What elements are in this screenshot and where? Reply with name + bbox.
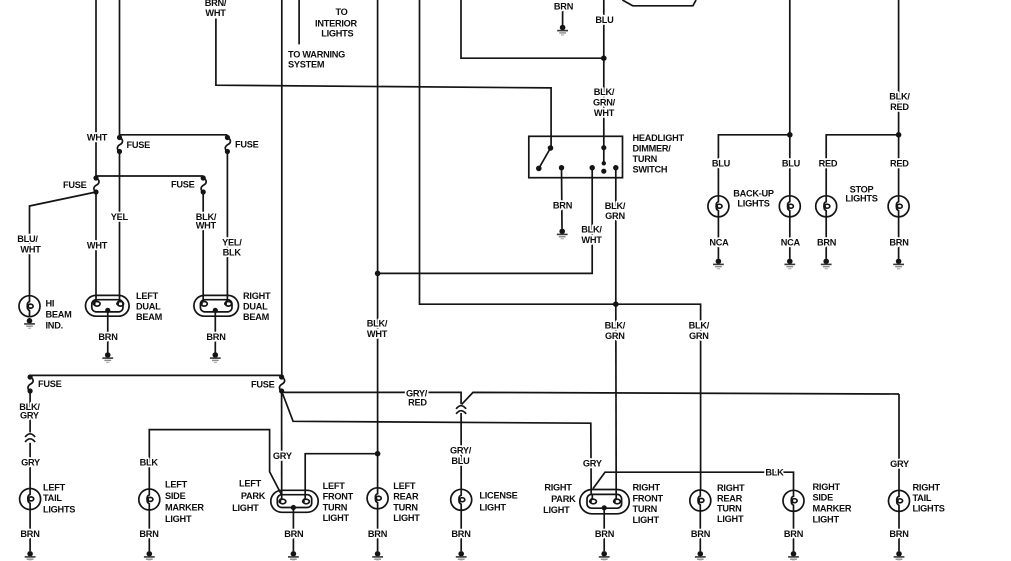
svg-text:BRN: BRN (368, 529, 388, 539)
left park light housing (271, 490, 318, 512)
svg-text:LIGHTS: LIGHTS (845, 193, 877, 203)
lamp back-up right (779, 196, 800, 217)
wire BLK/GRN from switch down to right park light (615, 168, 617, 305)
wire fuse bus 2 (96, 175, 203, 177)
connector tag at top (622, 0, 696, 6)
svg-text:BRN: BRN (20, 529, 40, 539)
lamp back-up left (708, 196, 729, 217)
wire BRN right park (603, 508, 605, 551)
svg-text:RIGHT: RIGHT (913, 483, 941, 493)
svg-text:FUSE: FUSE (235, 140, 259, 150)
svg-text:BRN: BRN (451, 529, 471, 539)
svg-text:RED: RED (819, 158, 838, 168)
svg-text:MARKER: MARKER (165, 503, 204, 513)
wire BLK/GRY to left tail connector (29, 391, 31, 433)
wire BRN left side marker (148, 510, 150, 551)
wire GRY/RED diagonal into connector (462, 392, 899, 404)
svg-text:LIGHT: LIGHT (717, 514, 744, 524)
right park light housing (580, 490, 629, 514)
svg-text:BLK/: BLK/ (367, 319, 388, 329)
svg-text:GRN: GRN (689, 331, 709, 341)
bulb right dual beam high (224, 297, 232, 307)
svg-text:LIGHTS: LIGHTS (737, 198, 769, 208)
svg-text:TURN: TURN (633, 154, 658, 164)
svg-text:BEAM: BEAM (243, 312, 270, 322)
node left dual beam common (105, 308, 110, 313)
svg-text:PARK: PARK (241, 491, 266, 501)
wire BRN stub at top (562, 11, 564, 27)
svg-text:FRONT: FRONT (633, 493, 664, 503)
wire YEL to left dual beam (119, 152, 121, 298)
lamp left tail lights (20, 489, 41, 510)
svg-text:GRN/: GRN/ (593, 98, 616, 108)
wire back-up lights feed BLU from top (789, 0, 791, 196)
svg-text:RIGHT: RIGHT (633, 483, 661, 493)
svg-text:PARK: PARK (551, 494, 576, 504)
headlight dimmer/turn switch box U1 (529, 136, 623, 177)
svg-text:GRN: GRN (605, 211, 625, 221)
ground top BRN stub (557, 25, 568, 35)
ground back-up right (784, 259, 795, 269)
svg-text:BLK: BLK (223, 248, 242, 258)
svg-text:SWITCH: SWITCH (633, 165, 668, 175)
svg-text:WHT: WHT (87, 133, 108, 143)
svg-text:GRN: GRN (605, 331, 625, 341)
switch lever (539, 148, 551, 168)
ground back-up left (713, 259, 724, 269)
wire BLK/WHT to right dual beam (202, 192, 204, 297)
wire BRN left rear turn (377, 509, 379, 551)
ground right dual beam (210, 352, 221, 362)
wire fuse bus 1 (120, 134, 228, 136)
svg-text:LIGHT: LIGHT (633, 515, 660, 525)
node junction BLK/WHT (375, 271, 381, 277)
bulb left park right (302, 494, 310, 504)
fuse F5 left tail (28, 374, 34, 393)
fuse F6 park/tail feed (279, 374, 285, 393)
wire BRN left park (292, 508, 294, 552)
svg-text:BRN: BRN (206, 332, 226, 342)
wire feed from top to BLU junction (461, 0, 604, 58)
ground left rear turn (372, 551, 383, 561)
wire NCA left (717, 217, 719, 259)
ground left park (288, 551, 299, 561)
svg-text:BLK/: BLK/ (605, 201, 626, 211)
svg-text:BLK/: BLK/ (594, 87, 615, 97)
svg-text:INTERIOR: INTERIOR (315, 19, 358, 29)
svg-text:RIGHT: RIGHT (243, 291, 271, 301)
svg-text:DUAL: DUAL (136, 302, 161, 312)
lamp right rear turn light (690, 490, 711, 511)
wire stop lights feed BLK/RED from top (898, 0, 900, 196)
svg-text:RIGHT: RIGHT (717, 483, 745, 493)
fuse F2 (225, 135, 231, 154)
node switch contact upper (601, 145, 606, 150)
lamp left rear turn light (367, 488, 388, 509)
svg-text:LIGHT: LIGHT (323, 513, 350, 523)
svg-text:RIGHT: RIGHT (813, 482, 841, 492)
wire BRN/WHT from top to headlight switch (216, 19, 551, 149)
wire BRN right tail (898, 511, 900, 551)
svg-text:BRN: BRN (817, 238, 837, 248)
node switch terminal BRN (559, 165, 564, 170)
node BLU junction (601, 55, 607, 61)
svg-text:WHT: WHT (20, 245, 41, 255)
svg-text:FUSE: FUSE (127, 140, 151, 150)
svg-text:LIGHT: LIGHT (165, 514, 192, 524)
svg-text:TURN: TURN (323, 502, 348, 512)
svg-text:TURN: TURN (393, 502, 418, 512)
svg-text:REAR: REAR (393, 492, 419, 502)
fuse F3 (93, 175, 99, 194)
svg-text:LIGHT: LIGHT (479, 503, 506, 513)
wire stub to warning system (298, 0, 300, 44)
ground below switch (557, 229, 568, 239)
svg-text:NCA: NCA (781, 238, 801, 248)
ground stop left (821, 259, 832, 269)
svg-text:BLU/: BLU/ (17, 234, 38, 244)
node junction stop lights (896, 132, 902, 138)
svg-text:LEFT: LEFT (165, 480, 188, 490)
wire GRY/BLU to license light (460, 413, 462, 489)
lamp stop left (816, 196, 837, 217)
svg-text:BLK/: BLK/ (581, 225, 602, 235)
svg-text:BLK/: BLK/ (605, 321, 626, 331)
svg-text:GRY: GRY (21, 458, 40, 468)
wire BLK side marker branch (149, 430, 281, 495)
wire BLK/WHT from switch to left rear turn junction (378, 168, 593, 274)
node junction left rear turn (375, 451, 381, 457)
svg-text:BRN: BRN (889, 238, 909, 248)
wire left park right bulb to rear turn junction (305, 454, 377, 495)
svg-text:BRN: BRN (554, 2, 574, 12)
svg-text:REAR: REAR (717, 493, 743, 503)
wire feed from top to fuse bus 1 (119, 0, 121, 138)
svg-text:BRN: BRN (98, 332, 118, 342)
wire WHT feed from top (95, 0, 97, 178)
svg-text:TURN: TURN (633, 504, 658, 514)
svg-text:BRN: BRN (284, 529, 304, 539)
node switch terminal BLK/WHT (590, 165, 595, 170)
svg-text:LIGHT: LIGHT (232, 503, 259, 513)
svg-text:BEAM: BEAM (46, 310, 73, 320)
wire BRN left tail (29, 510, 31, 552)
wire BRN right side marker (793, 511, 795, 551)
wire BRN stop right (898, 217, 900, 259)
svg-text:BLU: BLU (782, 158, 801, 168)
svg-text:BRN: BRN (691, 529, 711, 539)
svg-text:LEFT: LEFT (393, 481, 416, 491)
svg-text:BRN: BRN (889, 529, 909, 539)
svg-text:BRN: BRN (553, 201, 573, 211)
node switch contact end (602, 161, 606, 165)
wire NCA right (789, 217, 791, 259)
svg-text:WHT: WHT (581, 235, 602, 245)
svg-text:LIGHT: LIGHT (393, 513, 420, 523)
svg-text:YEL: YEL (111, 212, 129, 222)
svg-text:GRY: GRY (20, 411, 39, 421)
node lever end (536, 166, 542, 172)
bulb left dual beam high (116, 297, 124, 307)
lamp right side marker light (783, 490, 804, 511)
wire GRY right tail drop (898, 394, 900, 490)
svg-text:BRN/: BRN/ (205, 0, 227, 8)
ground right side marker (788, 551, 799, 561)
lamp license light (451, 489, 472, 510)
svg-text:BLU: BLU (451, 456, 470, 466)
svg-text:BRN: BRN (784, 529, 804, 539)
svg-text:LIGHT: LIGHT (813, 515, 840, 525)
left dual beam housing (86, 295, 130, 316)
lamp hi beam indicator (19, 296, 40, 317)
svg-text:RIGHT: RIGHT (544, 483, 572, 493)
svg-text:HI: HI (46, 299, 55, 309)
wire BRN right dual beam ground (214, 310, 216, 352)
wire diagonal to hi beam indicator (30, 192, 97, 296)
svg-text:RED: RED (408, 398, 427, 408)
node junction BLK/GRN (613, 301, 619, 307)
svg-text:RED: RED (890, 158, 909, 168)
svg-text:MARKER: MARKER (813, 504, 852, 514)
bulb left dual beam low (93, 297, 101, 307)
svg-text:BLU: BLU (712, 158, 731, 168)
svg-text:BLU: BLU (595, 15, 614, 25)
svg-text:LIGHTS: LIGHTS (913, 503, 945, 513)
svg-text:WHT: WHT (87, 241, 108, 251)
svg-text:BLK: BLK (140, 457, 159, 467)
svg-text:BRN: BRN (595, 529, 615, 539)
node left park common (291, 505, 296, 510)
ground left tail (25, 551, 36, 561)
node right park common (602, 505, 607, 510)
svg-text:TO WARNING: TO WARNING (288, 50, 345, 60)
connector in left tail wire (25, 434, 35, 442)
svg-text:NCA: NCA (709, 238, 729, 248)
svg-text:TAIL: TAIL (43, 493, 62, 503)
wire fuse bus 3 (30, 374, 282, 376)
bulb right park right (613, 494, 621, 504)
node right dual beam common (213, 308, 218, 313)
wire BRN right rear turn (699, 511, 701, 551)
svg-text:YEL/: YEL/ (222, 238, 242, 248)
svg-text:BLK/: BLK/ (889, 92, 910, 102)
svg-text:WHT: WHT (205, 8, 226, 18)
wire YEL/BLK to right dual beam (226, 152, 228, 298)
svg-text:GRY/: GRY/ (450, 446, 472, 456)
ground below hi beam indicator (24, 318, 35, 328)
node switch terminal BLK/GRN (613, 165, 618, 170)
ground left dual beam (102, 352, 113, 362)
wire BLU / BLK/GRN/WHT from top to switch (603, 0, 605, 163)
svg-text:TURN: TURN (717, 504, 742, 514)
lamp left side marker light (139, 489, 160, 510)
svg-text:BLK: BLK (765, 468, 784, 478)
svg-text:SIDE: SIDE (813, 493, 834, 503)
lamp right tail lights (889, 490, 910, 511)
wire GRY/RED main feed (282, 391, 462, 404)
wire stop branch (826, 135, 898, 196)
svg-text:FUSE: FUSE (63, 180, 87, 190)
wire BLK/GRN feed from top (420, 0, 701, 490)
ground right tail (894, 551, 905, 561)
svg-text:LEFT: LEFT (136, 291, 159, 301)
wire tail light feed from top (281, 0, 283, 375)
node junction back-up (787, 132, 793, 138)
wire back-up branch (718, 135, 789, 196)
wire left rear turn feed BLK/WHT from top (377, 0, 379, 488)
svg-text:TAIL: TAIL (913, 493, 932, 503)
fuse F4 (201, 175, 207, 194)
svg-text:GRY: GRY (273, 451, 292, 461)
svg-text:TO: TO (335, 7, 347, 17)
svg-text:FRONT: FRONT (323, 492, 354, 502)
svg-text:DUAL: DUAL (243, 302, 268, 312)
svg-text:LEFT: LEFT (43, 483, 66, 493)
svg-text:WHT: WHT (594, 108, 615, 118)
wire BRN license (460, 510, 462, 551)
svg-text:LEFT: LEFT (239, 479, 262, 489)
ground left side marker (144, 551, 155, 561)
node switch contact lower (601, 169, 606, 174)
svg-text:RED: RED (890, 102, 909, 112)
fuse F1 (117, 135, 123, 154)
wire BRN left dual beam ground (107, 310, 109, 352)
svg-text:DIMMER/: DIMMER/ (633, 144, 672, 154)
svg-text:LEFT: LEFT (323, 481, 346, 491)
lamp stop right (888, 196, 909, 217)
svg-text:SIDE: SIDE (165, 491, 186, 501)
wire branch to right park light (282, 391, 592, 495)
wire WHT to left dual beam (95, 192, 97, 297)
svg-text:WHT: WHT (367, 329, 388, 339)
svg-text:FUSE: FUSE (251, 380, 275, 390)
ground license (456, 551, 467, 561)
svg-text:LICENSE: LICENSE (479, 491, 517, 501)
svg-text:WHT: WHT (196, 220, 217, 230)
wire GRY to left tail lights (29, 443, 31, 489)
svg-text:BLK/: BLK/ (689, 321, 710, 331)
svg-text:HEADLIGHT: HEADLIGHT (633, 133, 685, 143)
svg-text:GRY: GRY (583, 459, 602, 469)
ground right park (599, 551, 610, 561)
ground stop right (893, 259, 904, 269)
bulb right park left (589, 494, 597, 504)
bulb left park left (278, 494, 286, 504)
svg-text:IND.: IND. (46, 321, 63, 331)
connector in license wire (456, 406, 466, 414)
wire BRN from switch to ground (561, 168, 564, 229)
svg-text:BACK-UP: BACK-UP (733, 188, 774, 198)
wire GRY to left park light (281, 391, 283, 495)
node lever pivot (548, 145, 554, 151)
bulb right dual beam low (200, 297, 208, 307)
svg-text:SYSTEM: SYSTEM (288, 60, 325, 70)
ground right rear turn (695, 551, 706, 561)
svg-text:BEAM: BEAM (136, 312, 163, 322)
svg-text:BRN: BRN (139, 529, 159, 539)
svg-text:GRY: GRY (890, 459, 909, 469)
svg-text:LIGHTS: LIGHTS (321, 29, 353, 39)
svg-text:LIGHTS: LIGHTS (43, 505, 75, 515)
wire BLK to right side marker (593, 472, 794, 490)
svg-text:FUSE: FUSE (38, 379, 62, 389)
right dual beam housing (194, 295, 239, 316)
svg-text:LIGHT: LIGHT (543, 505, 570, 515)
wire BRN stop left (825, 217, 827, 259)
svg-text:FUSE: FUSE (171, 180, 195, 190)
